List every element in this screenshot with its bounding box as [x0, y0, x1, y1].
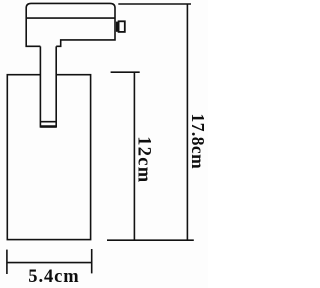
- knob connector: [116, 22, 119, 32]
- 17.8cm dimension line: [186, 4, 188, 241]
- 12cm dimension line: [133, 72, 135, 240]
- 5.4cm dimension line: [7, 262, 92, 264]
- stem cap bottom thick: [40, 125, 56, 127]
- lamp body rectangle: [7, 75, 90, 240]
- stem (covers body top line): [40, 46, 56, 126]
- track adapter outline: [26, 3, 115, 46]
- 5.4cm right tick: [91, 249, 93, 273]
- 12cm top tick: [111, 71, 140, 73]
- bottom extension line: [107, 239, 194, 241]
- top extension line: [118, 3, 191, 5]
- svg-text:5.4cm: 5.4cm: [28, 267, 79, 287]
- stem cap line: [40, 121, 56, 123]
- stem outline: [40, 46, 56, 126]
- 5.4cm left tick: [6, 250, 8, 274]
- adapter inner line: [26, 17, 115, 19]
- svg-text:17.8cm: 17.8cm: [188, 114, 208, 170]
- svg-text:12cm: 12cm: [134, 136, 154, 183]
- knob: [119, 21, 125, 32]
